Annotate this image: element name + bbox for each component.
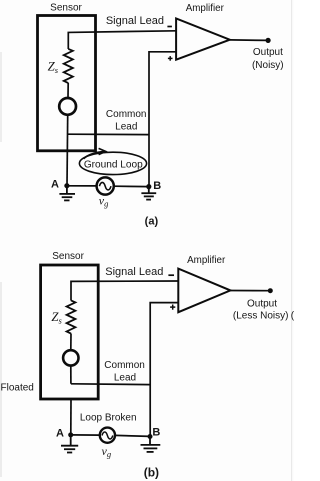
node B (b): [148, 434, 153, 439]
svg-text:Output: Output: [247, 298, 277, 309]
node B (a): [146, 184, 151, 189]
svg-text:Signal Lead: Signal Lead: [106, 15, 164, 27]
svg-text:Lead: Lead: [115, 122, 137, 133]
ground loop ellipse: [79, 152, 146, 174]
svg-text:Lead: Lead: [114, 373, 136, 384]
svg-text:Floated: Floated: [1, 382, 34, 393]
svg-text:A: A: [51, 178, 59, 190]
svg-text:Amplifier: Amplifier: [186, 3, 225, 14]
ground symbol at A (b): [61, 435, 78, 453]
svg-text:(Less Noisy): (Less Noisy): [233, 310, 289, 321]
wire source to ground A (a): [66, 115, 69, 186]
non-inverting plus label (b): [170, 305, 175, 310]
svg-text:A: A: [56, 427, 64, 439]
wire case to ground A (b): [70, 400, 72, 435]
wire A to vg (b): [71, 434, 100, 436]
sensor enclosure box floated (b): [41, 265, 99, 399]
wire vg to B (b): [115, 435, 150, 436]
inverting input minus label (b): [168, 274, 174, 276]
node A (b): [68, 432, 73, 437]
scan edge shading: [291, 0, 292, 481]
wire vg to B (a): [115, 185, 149, 187]
wire resistor to source (a): [67, 83, 69, 97]
resistor Zs (b): [67, 300, 76, 333]
sensor source circle (a): [59, 98, 76, 115]
svg-text:(b): (b): [144, 465, 159, 479]
ground symbol at B (a): [141, 187, 156, 200]
svg-text:Common: Common: [104, 360, 145, 371]
wire signal lead (b): [71, 281, 178, 301]
svg-text:Ground Loop: Ground Loop: [84, 160, 143, 171]
output terminal dot (b): [268, 288, 273, 293]
op-amp U1 (a): [176, 19, 230, 60]
svg-text:Common: Common: [106, 109, 147, 120]
svg-text:Loop Broken: Loop Broken: [80, 413, 137, 424]
noise source vg (a): [97, 177, 114, 194]
sensor source circle (b): [63, 350, 78, 365]
svg-text:(: (: [291, 310, 294, 321]
wire plus input (b): [150, 303, 178, 437]
output terminal dot (a): [266, 38, 271, 43]
svg-text:B: B: [153, 180, 161, 192]
sensor enclosure box (a): [38, 16, 96, 151]
wire resistor to source (b): [70, 334, 72, 351]
wire common lead (a): [68, 133, 149, 135]
svg-text:B: B: [152, 426, 160, 438]
svg-text:Amplifier: Amplifier: [187, 255, 226, 266]
non-inverting plus label (a): [168, 56, 173, 61]
wire A to vg (a): [67, 185, 96, 187]
wire plus input (a): [149, 52, 176, 186]
svg-text:(Noisy): (Noisy): [252, 60, 284, 71]
svg-text:Signal Lead: Signal Lead: [105, 266, 163, 278]
resistor Zs (a): [64, 49, 73, 83]
wire output (b): [230, 290, 270, 292]
node A (a): [64, 183, 69, 188]
inverting input minus label (a): [167, 26, 172, 28]
noise source vg (b): [100, 428, 115, 443]
svg-text:Sensor: Sensor: [50, 3, 82, 14]
wire source to common corner (b): [70, 366, 72, 384]
wire signal lead (a): [68, 31, 176, 49]
svg-text:Sensor: Sensor: [52, 251, 84, 262]
op-amp U2 (b): [178, 269, 230, 313]
ground loop arrow: [84, 152, 105, 159]
ground symbol at B (b): [141, 437, 161, 452]
svg-text:Output: Output: [253, 47, 283, 58]
svg-text:(a): (a): [145, 216, 159, 228]
wire output (a): [230, 39, 268, 42]
ground symbol at A (a): [59, 186, 75, 200]
wire common lead (b): [71, 383, 150, 386]
